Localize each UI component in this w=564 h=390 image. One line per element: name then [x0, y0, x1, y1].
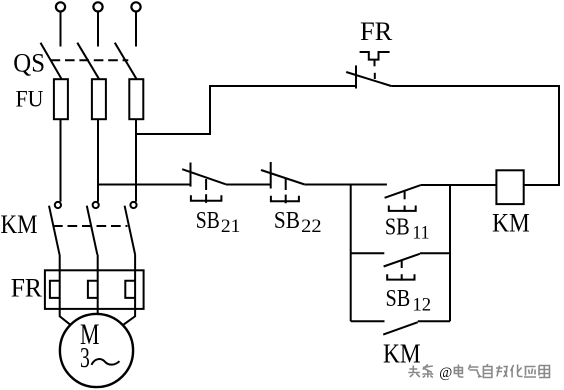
char 动 — [496, 366, 508, 378]
fuse FU 1 — [54, 79, 68, 119]
switch QS pole 2 blade — [77, 43, 99, 80]
wire L2 fuse to KM contact — [97, 119, 99, 202]
contact KM auxiliary NO blade — [383, 322, 418, 334]
contactor KM main contact 1 — [49, 202, 61, 255]
wire L2 KM to motor — [97, 255, 99, 315]
wire SB12 row left segment — [351, 252, 385, 254]
button SB11 cap — [389, 206, 416, 212]
thermal relay FR heater box — [45, 270, 144, 309]
svg-text:FR: FR — [360, 17, 393, 46]
button SB12 NO start: blade — [384, 254, 420, 267]
terminal L3 — [131, 2, 140, 11]
contactor KM coupling dashed link — [53, 225, 128, 227]
button SB21 actuator stem — [205, 179, 207, 190]
terminal L2 — [93, 2, 102, 11]
svg-text:SB: SB — [196, 207, 220, 234]
fuse FU 3 — [129, 79, 143, 119]
wire L3 fuse to KM contact — [135, 119, 137, 202]
svg-text:SB: SB — [274, 207, 300, 234]
char 应 — [524, 367, 536, 378]
svg-text:12: 12 — [412, 294, 431, 315]
svg-text:21: 21 — [221, 216, 241, 237]
relay FR NC contact bar — [355, 65, 357, 88]
wire KM aux row right segment — [418, 320, 450, 322]
button SB11 NO start: blade — [385, 185, 421, 198]
button SB21 wire to SB22 — [226, 184, 271, 186]
svg-text:SB: SB — [385, 213, 410, 240]
wire L2 drop — [97, 12, 99, 47]
watermark 头条 @电气自动化应用 (drawn shapes, grader has no CJK font) — [408, 364, 549, 381]
thermal relay FR heater element 1 — [50, 281, 60, 298]
button SB21 NC stop: blade — [182, 169, 226, 184]
char 电 — [454, 365, 463, 378]
wire control tap from L3 to FR contact — [136, 86, 356, 134]
wire L1 KM to motor — [60, 255, 71, 325]
relay FR NC contact thermal element symbol — [360, 52, 390, 60]
svg-text:22: 22 — [301, 216, 321, 237]
switch QS pole 3 blade — [115, 43, 137, 80]
char 头 — [408, 366, 420, 378]
svg-text:FR: FR — [11, 273, 43, 302]
svg-text:KM: KM — [383, 339, 421, 369]
svg-text:KM: KM — [492, 208, 530, 237]
svg-text:FU: FU — [16, 86, 44, 111]
svg-text:SB: SB — [386, 285, 411, 312]
wire L3 KM to motor — [123, 255, 135, 325]
button SB12 cap — [387, 274, 414, 280]
switch QS pole 1 blade — [41, 43, 62, 80]
contactor KM main contact 2 — [87, 202, 99, 255]
terminal L1 — [56, 2, 65, 11]
button SB22 cap — [271, 195, 299, 204]
thermal relay FR heater element 2 — [88, 281, 98, 298]
wire L1 drop — [60, 12, 62, 47]
svg-text:3: 3 — [80, 343, 90, 374]
char 条 — [422, 365, 433, 378]
svg-text:11: 11 — [412, 223, 429, 244]
button SB11 actuator stem — [404, 191, 406, 200]
wire KM aux row left segment — [351, 320, 385, 322]
button SB21 cap — [191, 194, 222, 203]
coil KM rectangle — [496, 170, 523, 204]
button SB22 NC stop: bar — [270, 162, 272, 189]
label ~ (drawn) — [92, 359, 120, 365]
char 用 — [539, 366, 550, 378]
char 化 — [511, 365, 523, 378]
wire parallel branch left vertical — [350, 185, 352, 322]
char 自 — [483, 364, 492, 378]
svg-text:QS: QS — [13, 49, 45, 78]
svg-text:KM: KM — [1, 210, 38, 239]
thermal relay FR heater element 3 — [125, 281, 135, 298]
svg-text:@: @ — [439, 365, 452, 381]
button SB21 NC stop: bar — [190, 163, 192, 187]
char 气 — [468, 365, 480, 378]
wire FR contact to right rail and down to KM coil — [391, 86, 559, 185]
button SB12 actuator stem — [401, 260, 403, 269]
wire KM coil left to contact row — [421, 184, 497, 186]
wire L3 drop — [135, 12, 137, 47]
switch QS coupling dashed link — [51, 59, 129, 61]
wire SB12 row right segment — [420, 252, 450, 254]
relay FR NC contact actuator dashes — [374, 60, 376, 67]
button SB22 NC stop: blade — [261, 170, 305, 185]
fuse FU 2 — [92, 79, 106, 119]
wire L1 fuse to KM contact — [60, 119, 62, 202]
motor M circle — [60, 314, 133, 387]
relay FR NC contact blade — [346, 72, 391, 86]
wire parallel branch right vertical — [449, 185, 451, 322]
wire control tap from L2 to SB21 — [98, 184, 191, 186]
contactor KM main contact 3 — [125, 202, 137, 255]
button SB22 wire to junction — [305, 184, 387, 186]
button SB22 actuator stem — [285, 179, 287, 191]
